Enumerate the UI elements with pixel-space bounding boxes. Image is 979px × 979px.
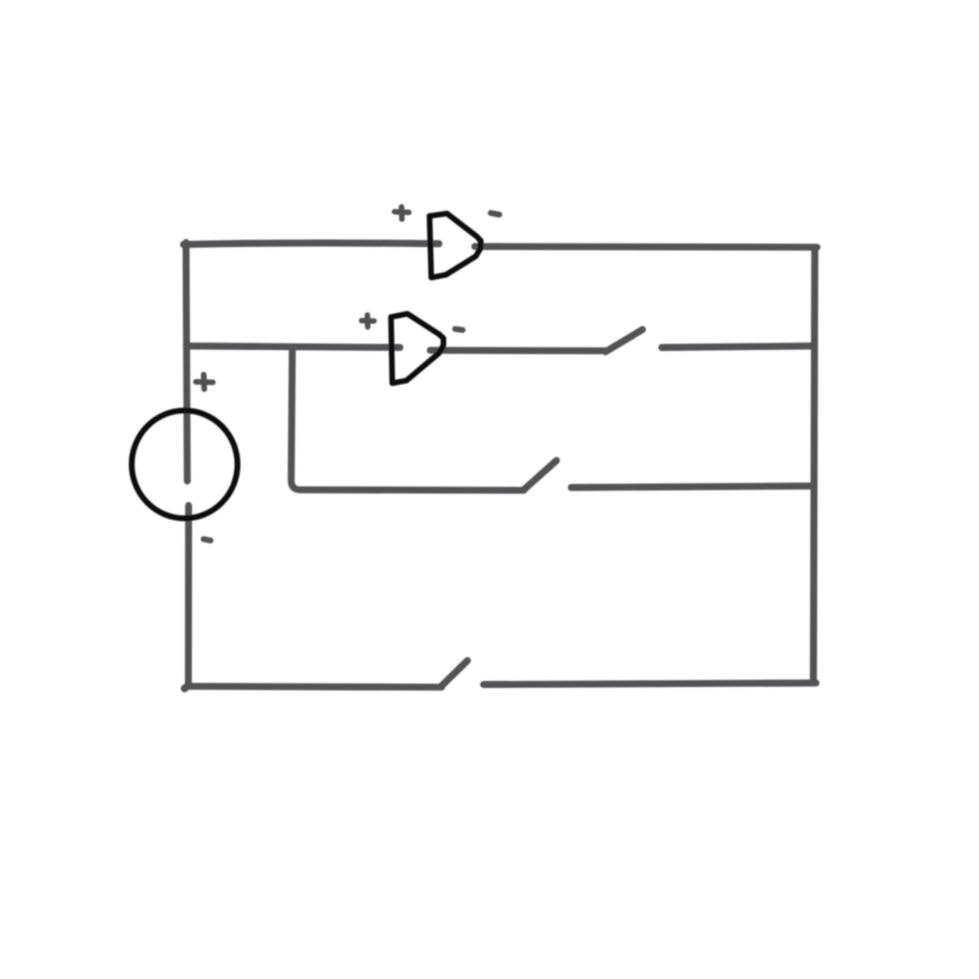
wire: top-left vertical from top wire corner down to battery positive terminal (186, 243, 187, 482)
buzzer BZ1 triangle outline (430, 214, 481, 278)
wire: second horizontal, middle segment from buzzer BZ2 minus pin to switch SW1 (430, 347, 606, 354)
wire: top horizontal, left segment to buzzer BZ1 plus pin (184, 243, 440, 245)
wire: battery negative terminal down to bottom-left corner (185, 506, 192, 687)
label: minus sign of voltage source V1 (204, 539, 211, 540)
label: minus sign of buzzer BZ1 (491, 213, 500, 215)
wire: branch vertical from node on second horizontal down and right to switch SW2 (291, 348, 524, 490)
switch SW3 lever (open) (441, 661, 468, 688)
wire: bottom horizontal, left segment from bottom-left corner to switch SW3 (188, 683, 442, 691)
switch SW1 lever (open) (606, 330, 643, 352)
wire: right vertical side of loop (813, 248, 814, 678)
label: plus sign of voltage source V1 (196, 375, 213, 389)
label: minus sign of buzzer BZ2 (455, 329, 462, 330)
wire: second horizontal, left segment from left vertical to buzzer BZ2 plus pin (187, 346, 401, 348)
wire: second horizontal, right segment from switch SW1 to right vertical (662, 346, 814, 348)
junction blob at bottom-left corner (185, 687, 187, 689)
wire: third horizontal, right segment from switch SW2 to right vertical (571, 486, 813, 488)
voltage source V1 circle (132, 411, 238, 519)
switch SW2 lever (open) (524, 461, 557, 491)
wire: top horizontal, right segment from buzzer BZ1 minus pin to top-right corner (475, 243, 817, 251)
label: plus sign of buzzer BZ1 (395, 207, 409, 219)
buzzer BZ2 triangle outline (391, 314, 443, 383)
wire: bottom horizontal, right segment from switch SW3 to bottom-right corner (484, 683, 817, 685)
label: plus sign of buzzer BZ2 (362, 315, 375, 327)
